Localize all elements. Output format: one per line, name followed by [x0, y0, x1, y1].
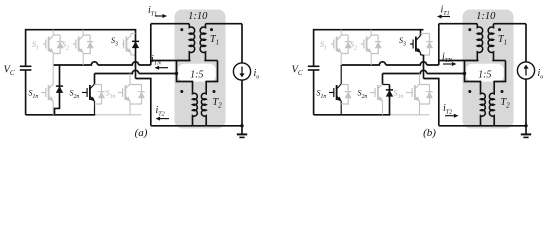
S2n collector lead (a) [94, 74, 96, 85]
svg-text:1:10: 1:10 [476, 11, 496, 22]
arrow i_T2 (a) [156, 117, 170, 121]
wire step vertical (a) [150, 24, 152, 65]
label 1:5 background pill (a) [178, 64, 216, 82]
mid rail wire (a) [53, 62, 151, 65]
transistor S3 (b) [410, 36, 421, 54]
arrow i_TN (a) [155, 66, 169, 70]
junction node ground (b) [524, 124, 527, 127]
wire H2 (a) [95, 70, 177, 73]
T2 secondary winding (a) [201, 88, 206, 117]
S1n emitter lead (b) [340, 101, 342, 115]
S3 bottom connector (b) [421, 54, 424, 56]
transistor S3n (b) [406, 84, 420, 102]
T1 polarity dot right (b) [498, 28, 501, 31]
T1 primary winding (b) [477, 24, 482, 61]
S1n emitter lead (a) [52, 101, 54, 115]
bottom rail inactive (b) [390, 114, 429, 116]
wire to T1 primary (b) [439, 60, 479, 62]
wire jog right (b) [494, 61, 505, 89]
diode D2n (a) [95, 85, 106, 105]
S2n emitter lead (b) [382, 101, 384, 115]
label 1:5 background pill (b) [466, 64, 504, 82]
T1 polarity dot right (a) [210, 28, 213, 31]
arrow i_T2 (b) [445, 114, 459, 118]
wire H2 (b) [383, 70, 465, 73]
S1 diode (b) [341, 35, 352, 54]
bottom rail inactive (a) [95, 114, 141, 116]
S3 bottom connector (a) [131, 54, 136, 56]
transistor S3n (a) [118, 84, 131, 102]
transistor S1n (b) [329, 84, 342, 102]
S3n collector lead (b) [419, 74, 421, 85]
diode D2n (b) [383, 85, 394, 115]
S3n emitter lead (b) [419, 101, 421, 115]
svg-text:1:5: 1:5 [190, 69, 203, 80]
arrow i_T1 (a) [155, 14, 167, 18]
T1 primary winding (a) [189, 24, 194, 61]
T2 polarity dot left (b) [468, 90, 471, 93]
capacitor C_dc (a) [20, 66, 32, 70]
capacitor C_dc (b) [308, 66, 320, 70]
S1 diode (a) [53, 35, 64, 54]
S2 collector lead (b) [370, 30, 372, 36]
wire jog right (a) [206, 61, 217, 89]
S2 collector lead (a) [82, 30, 84, 36]
wire T1 sec bottom (a) [204, 60, 217, 62]
wire i_T1 top (a) [151, 23, 190, 25]
transistor S2 (a) [73, 36, 84, 54]
wire T1 secondary top (b) [494, 23, 527, 25]
T2 secondary bottom lead (a) [205, 117, 207, 126]
arrow i_T1 (b) [437, 15, 450, 19]
S2 diode (b) [371, 35, 382, 54]
bottom rail (a) [26, 114, 96, 116]
wire jog left (b) [465, 61, 481, 89]
S2n collector lead (b) [382, 74, 384, 85]
wire jog left (a) [177, 61, 193, 89]
T2 primary bottom lead (a) [192, 117, 194, 126]
wire T1 secondary top (a) [206, 23, 243, 25]
bottom return wire (a) [151, 125, 242, 127]
S2 emitter lead (b) [370, 53, 372, 66]
S3 emitter connector (a) [130, 53, 132, 56]
wire V1 down (b) [423, 55, 425, 79]
current source i_o (a) [233, 24, 250, 126]
wire V1 jog (b) [424, 79, 439, 126]
S1n collector lead (b) [340, 65, 342, 84]
T2 secondary bottom lead (b) [493, 117, 495, 126]
S1 emitter lead (b) [340, 53, 342, 66]
svg-text:1:10: 1:10 [188, 11, 208, 22]
wire T1 sec bottom (b) [492, 60, 505, 62]
transformer block background (a) [175, 10, 226, 129]
junction node H2-jog (b) [463, 72, 466, 75]
diode D3n (b) [420, 85, 434, 105]
transistor S1 (b) [331, 36, 342, 54]
S3 emitter lead (b) [420, 53, 422, 56]
T2 polarity dot left (a) [180, 90, 183, 93]
ground (b) [521, 126, 531, 138]
S3n emitter lead (a) [129, 101, 131, 115]
T2 polarity dot right (a) [213, 90, 216, 93]
diode D1n (b) [341, 85, 352, 105]
S1 collector lead (a) [52, 30, 54, 36]
S1 emitter lead (a) [52, 53, 54, 66]
diode D1n (a) [55, 65, 64, 115]
T2 polarity dot right (b) [501, 90, 504, 93]
mid rail wire (b) [341, 62, 439, 65]
T1 polarity dot left (a) [180, 28, 183, 31]
svg-text:(b): (b) [423, 127, 436, 139]
transformer block background (b) [463, 10, 514, 129]
T2 primary winding (a) [193, 88, 198, 117]
current source i_o (b) [517, 24, 534, 126]
wire i_T1 top (b) [439, 23, 478, 25]
T1 secondary winding (a) [200, 24, 205, 61]
transistor S2n (a) [82, 84, 95, 102]
wire bus corner to D3 (a) [135, 29, 137, 37]
T2 secondary winding (b) [489, 88, 494, 117]
T2 primary winding (b) [481, 88, 486, 117]
S2 emitter lead (a) [82, 53, 84, 66]
ground (a) [237, 126, 247, 138]
wire step vertical (b) [438, 24, 440, 65]
diode D3 (b) [421, 34, 434, 56]
transistor S2n (b) [370, 84, 383, 102]
T2 primary bottom lead (b) [480, 117, 482, 126]
bottom return wire (b) [439, 125, 526, 127]
wire V1 down (a) [135, 53, 137, 79]
bottom rail (b) [314, 114, 391, 116]
wire bus corner to S3 (b) [420, 29, 422, 36]
S3n collector lead (a) [129, 74, 131, 85]
svg-text:(a): (a) [135, 127, 148, 139]
junction node ground (a) [240, 124, 243, 127]
transistor S1 (a) [43, 36, 54, 54]
S2 diode (a) [83, 35, 94, 54]
transistor S1n (a) [41, 84, 54, 102]
top bus wire (b) [314, 29, 424, 31]
S2n emitter lead (a) [94, 101, 96, 115]
S3 collector lead (a) [131, 34, 136, 36]
top bus wire (a) [26, 29, 136, 31]
wire DC link left top (b) [313, 29, 315, 66]
wire DC link left bottom (a) [25, 70, 27, 115]
transistor S2 (b) [361, 36, 372, 54]
wire to T1 primary (a) [151, 60, 191, 62]
T1 secondary winding (b) [488, 24, 493, 61]
T1 polarity dot left (b) [468, 28, 471, 31]
wire DC link left bottom (b) [313, 70, 315, 115]
junction node H2-jog (a) [175, 72, 178, 75]
svg-text:1:5: 1:5 [478, 69, 491, 80]
arrow i_TN (b) [443, 62, 457, 66]
wire DC link left top (a) [25, 29, 27, 66]
S1 collector lead (b) [340, 30, 342, 36]
transistor S3 (a) [122, 36, 132, 54]
S1n collector lead (a) [52, 65, 54, 84]
diode D3n (a) [130, 85, 145, 105]
diode D3 (a) [132, 37, 139, 54]
wire V1 jog (a) [136, 79, 151, 126]
